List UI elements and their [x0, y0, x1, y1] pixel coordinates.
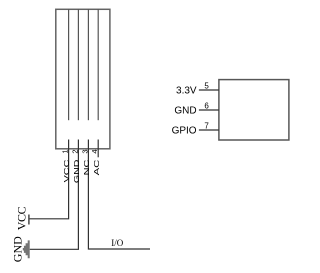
sensor grille line 2: [77, 9, 79, 120]
svg-text:AC: AC: [94, 160, 101, 176]
svg-text:3: 3: [80, 149, 89, 153]
svg-text:NC: NC: [84, 160, 91, 176]
pin 3 wire (I/O): [88, 140, 150, 250]
ground symbol: [23, 240, 30, 258]
svg-text:VCC: VCC: [64, 160, 71, 183]
svg-text:1: 1: [61, 149, 70, 153]
svg-text:GND: GND: [174, 105, 196, 116]
svg-text:4: 4: [90, 149, 99, 153]
sensor grille line 1: [68, 9, 70, 120]
MCU block: [219, 80, 289, 140]
svg-text:5: 5: [204, 81, 209, 90]
svg-text:7: 7: [204, 121, 209, 130]
sensor grille line 4: [97, 9, 99, 120]
pin 1 wire (VCC): [29, 140, 69, 219]
pin 7 stub: [199, 129, 219, 131]
svg-text:6: 6: [204, 101, 209, 110]
svg-text:GND: GND: [74, 160, 81, 184]
sensor body (DHT): [56, 9, 110, 149]
pin 4 stub: [97, 140, 99, 158]
pin 2 wire (GND): [30, 140, 79, 250]
svg-text:VCC: VCC: [15, 206, 29, 230]
sensor grille line 3: [87, 9, 89, 120]
VCC power tick: [28, 215, 30, 225]
svg-text:3.3V: 3.3V: [176, 85, 197, 96]
svg-text:I/O: I/O: [111, 238, 123, 248]
pin 6 stub: [199, 109, 219, 111]
svg-text:GPIO: GPIO: [172, 126, 197, 137]
pin 5 stub: [199, 89, 219, 91]
svg-text:2: 2: [70, 149, 79, 153]
svg-text:GND: GND: [11, 236, 25, 262]
